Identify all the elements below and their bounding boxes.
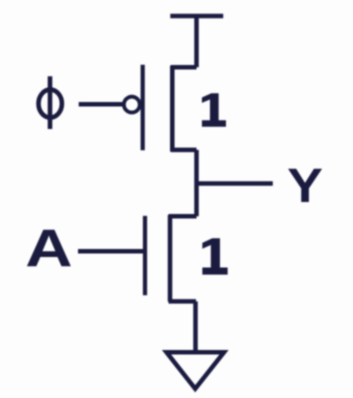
VDD power bar: [170, 14, 223, 19]
wire NMOS source stub: [169, 299, 197, 304]
PMOS bubble: [124, 97, 140, 113]
transistor NMOS input device: [78, 215, 197, 302]
wire PMOS drain stub: [171, 148, 197, 153]
svg-text:A: A: [25, 220, 72, 279]
wire NMOS gate lead: [78, 249, 145, 254]
transistor PMOS clock device: [79, 65, 197, 152]
wire VDD stem to PMOS drain: [194, 14, 199, 67]
label size 1 of PMOS: [202, 93, 226, 127]
PMOS gate bar: [141, 65, 145, 151]
ground symbol: [167, 352, 225, 388]
wire PMOS source stub: [171, 65, 197, 70]
wire NMOS source to ground: [193, 301, 198, 352]
PMOS channel bar: [170, 66, 175, 152]
label size 1 of NMOS: [202, 238, 227, 274]
svg-text:Y: Y: [287, 160, 323, 213]
wire middle rail node Y: [194, 150, 199, 216]
label phi clock: [39, 76, 62, 129]
wire output to Y: [197, 181, 273, 186]
NMOS channel bar: [168, 215, 173, 302]
wire PMOS gate lead: [79, 102, 123, 107]
wire NMOS drain stub: [169, 214, 197, 219]
NMOS gate bar: [143, 216, 147, 295]
